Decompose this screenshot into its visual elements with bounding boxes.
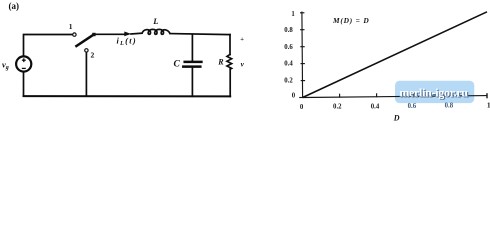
svg-text:0.6: 0.6	[284, 44, 293, 51]
svg-text:R: R	[217, 58, 224, 67]
svg-text:vg: vg	[2, 60, 9, 72]
svg-text:0: 0	[300, 104, 304, 111]
svg-text:1: 1	[69, 22, 73, 31]
svg-text:0.2: 0.2	[284, 77, 293, 84]
svg-text:0.2: 0.2	[333, 104, 342, 111]
svg-text:0.4: 0.4	[371, 103, 380, 110]
svg-text:0.4: 0.4	[284, 61, 293, 68]
svg-text:merlin-igor.ru: merlin-igor.ru	[399, 86, 468, 100]
svg-text:0.8: 0.8	[284, 27, 293, 34]
svg-text:2: 2	[91, 51, 95, 60]
svg-text:L: L	[152, 16, 158, 26]
svg-text:iL(t): iL(t)	[117, 37, 137, 47]
svg-text:0.6: 0.6	[408, 103, 417, 110]
svg-text:0: 0	[292, 93, 296, 100]
svg-text:D: D	[393, 114, 400, 122]
svg-text:C: C	[174, 59, 181, 69]
svg-text:1: 1	[291, 11, 295, 18]
svg-text:+: +	[240, 36, 244, 43]
svg-text:(a): (a)	[9, 1, 20, 11]
svg-text:v: v	[241, 59, 245, 68]
svg-text:M(D) = D: M(D) = D	[332, 16, 369, 25]
svg-text:0.8: 0.8	[445, 103, 454, 110]
